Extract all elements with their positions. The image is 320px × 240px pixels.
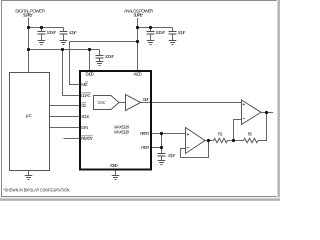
op-amp U3 input polarity marks	[243, 103, 245, 118]
svg-text:100nF: 100nF	[105, 54, 115, 59]
overline Z of M/Z	[85, 81, 87, 83]
svg-text:100nF: 100nF	[47, 30, 57, 35]
wire uC CS	[50, 105, 81, 107]
node analog rail	[136, 40, 139, 43]
op-amp U3	[242, 100, 262, 125]
capacitor C1 100nF stubs	[41, 28, 43, 32]
node digital branch	[27, 26, 30, 29]
node DVDD drop	[88, 48, 91, 51]
microcontroller uC	[10, 73, 50, 171]
wire digital rail	[29, 49, 90, 51]
capacitor C5 plates	[169, 31, 177, 33]
svg-text:MAX5139: MAX5139	[114, 129, 130, 134]
node U2 output	[207, 139, 210, 142]
svg-text:DVDD: DVDD	[86, 72, 95, 77]
svg-text:R1: R1	[218, 131, 223, 136]
svg-text:4.7µF: 4.7µF	[168, 153, 176, 158]
capacitor C6 4.7uF stub	[161, 156, 163, 160]
op-amp U2	[186, 128, 206, 154]
capacitor plates	[38, 32, 177, 157]
capacitor C6 plates	[158, 153, 166, 155]
capacitor C2 4.7uF stubs	[63, 28, 65, 32]
ground under C2	[60, 41, 68, 45]
wire uC DIN	[50, 127, 81, 129]
wire LDAC tie-high	[63, 50, 81, 96]
svg-text:DAC: DAC	[98, 100, 105, 105]
IC U1 MAX5138 box	[80, 71, 151, 170]
svg-text:AGND: AGND	[110, 163, 118, 168]
text labels	[15, 8, 153, 17]
svg-text:SCLK: SCLK	[81, 114, 89, 119]
ground under C6	[158, 161, 166, 165]
svg-text:AVDD: AVDD	[133, 72, 142, 77]
ground under C3	[96, 62, 104, 66]
svg-text:LDAC: LDAC	[81, 93, 91, 98]
svg-text:CS: CS	[81, 103, 86, 108]
wire R1 to R2 node	[228, 140, 244, 142]
wire M/Z tie-high	[70, 42, 81, 85]
node analog branch	[136, 26, 139, 29]
svg-text:M/Z: M/Z	[81, 82, 88, 87]
svg-text:4.7µF: 4.7µF	[69, 30, 77, 35]
border frame	[2, 1, 278, 197]
capacitor C3 plates	[96, 55, 104, 57]
wire REFO net	[152, 133, 186, 135]
capacitor C2 plates	[60, 31, 68, 33]
wire U3 inverting input	[234, 120, 242, 141]
resistor R1	[214, 138, 228, 142]
wire REFO-REFI tie	[161, 134, 163, 154]
node REFI	[160, 146, 163, 149]
capacitor C1 plates	[38, 31, 46, 33]
overline READY	[81, 135, 93, 137]
wire READY stub	[64, 138, 81, 140]
part number	[114, 124, 130, 134]
wire digital supply vertical	[28, 18, 30, 73]
svg-text:REFI: REFI	[141, 145, 149, 150]
ground AGND	[112, 176, 120, 180]
op-amp U2 input polarity marks	[187, 133, 189, 147]
pin overlines	[81, 82, 93, 136]
capacitor C5 4.7uF stubs	[172, 28, 174, 32]
svg-text:µC: µC	[26, 113, 32, 118]
wire branch to C3	[90, 49, 100, 51]
capacitor C4 plates	[147, 31, 155, 33]
wire uC gnd stub	[28, 171, 30, 176]
node R1-R2	[232, 139, 235, 142]
wire DAC to buffer	[119, 102, 126, 104]
wire analog cap branch	[138, 27, 173, 29]
wire R2 to output riser	[258, 113, 267, 141]
svg-text:SUPPLY: SUPPLY	[133, 12, 143, 17]
svg-text:OUT: OUT	[143, 97, 149, 102]
node C1 tap	[40, 26, 43, 29]
wire REFI net	[152, 147, 162, 149]
wire analog supply vertical	[137, 18, 139, 71]
node U3 output	[265, 111, 268, 114]
ground under uC	[25, 176, 33, 180]
DAC block	[94, 96, 120, 110]
node REFO	[160, 132, 163, 135]
wire AGND stub	[115, 170, 117, 176]
capacitor C3 100nF stubs	[99, 50, 101, 56]
svg-text:SUPPLY: SUPPLY	[23, 12, 33, 17]
svg-text:DIN: DIN	[81, 125, 88, 130]
ground symbols	[25, 41, 177, 180]
wire OUT net	[141, 102, 242, 104]
svg-text:100nF: 100nF	[156, 30, 166, 35]
svg-text:*SHOWN IN BIPOLAR CONFIGURATIO: *SHOWN IN BIPOLAR CONFIGURATION	[3, 187, 69, 192]
wire analog rail	[70, 41, 138, 43]
buffer amp	[126, 95, 141, 111]
wire U2 out to R1	[205, 140, 214, 142]
svg-text:R2: R2	[248, 131, 253, 136]
ground under C5	[169, 41, 177, 45]
svg-text:4.7µF: 4.7µF	[178, 30, 186, 35]
wire DVDD drop	[89, 50, 91, 72]
node C4 tap	[149, 26, 152, 29]
ground under C1	[38, 41, 46, 45]
wire digital cap branch	[29, 27, 64, 29]
svg-text:REFO: REFO	[140, 131, 150, 136]
wire U2 feedback	[181, 141, 209, 158]
wire uC SCLK	[50, 116, 81, 118]
svg-text:READY: READY	[81, 136, 93, 141]
overline CS	[81, 102, 86, 104]
capacitor C4 100nF stubs	[150, 28, 152, 32]
node digital rail left	[27, 48, 30, 51]
wire U3 output stub	[261, 112, 273, 114]
ground under C4	[147, 41, 155, 45]
overline LDAC	[81, 92, 91, 94]
resistor R2	[244, 138, 259, 142]
IC pin labels	[81, 72, 150, 168]
node LDAC drop	[61, 48, 64, 51]
